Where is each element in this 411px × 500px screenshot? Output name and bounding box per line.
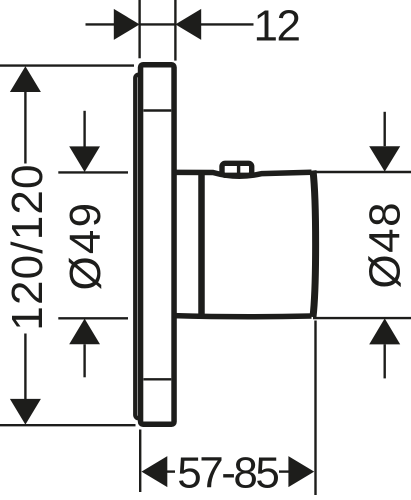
handle front edge	[313, 171, 316, 318]
svg-text:Ø49: Ø49	[61, 201, 110, 291]
stem bottom	[384, 344, 386, 378]
escutcheon plate (side view)	[141, 65, 175, 425]
svg-text:57-85: 57-85	[177, 448, 278, 497]
wall flange strip	[135, 75, 146, 419]
dimension 120/120 (plate height)	[0, 66, 136, 426]
handle bottom edge	[174, 316, 312, 317]
dimension 57-85 (wall to handle front)	[140, 321, 315, 496]
stem upper	[24, 91, 26, 164]
right tail	[279, 470, 290, 472]
arrow up (D49 bottom)	[69, 319, 100, 345]
handle top edge	[174, 172, 312, 176]
handle body fill	[177, 171, 314, 317]
extension line right	[174, 0, 176, 61]
arrow up (120/120 top)	[10, 66, 41, 92]
arrow down (120/120 bottom)	[10, 399, 41, 425]
plate inner line top	[144, 109, 172, 111]
left tail	[86, 23, 115, 25]
left tail	[167, 470, 176, 472]
extension line right	[314, 321, 316, 496]
stem bottom	[83, 344, 85, 377]
right tail	[201, 23, 254, 25]
arrow down (D49 top)	[69, 146, 100, 172]
arrow left-pointing (12 right)	[175, 9, 201, 40]
arrow left-pointing (57-85 left)	[142, 456, 168, 487]
extension line top	[313, 171, 411, 173]
extension line bottom	[313, 317, 411, 319]
arrow up (D48 bottom)	[369, 318, 400, 344]
stem top	[384, 112, 386, 146]
extension line top	[58, 171, 128, 173]
dim line between	[140, 23, 176, 25]
tab divider	[237, 165, 240, 174]
svg-text:12: 12	[254, 2, 300, 51]
dimension D49 (sleeve diameter)	[58, 111, 128, 378]
arrow down (D48 top)	[369, 146, 400, 171]
stem lower	[24, 334, 26, 400]
dimension D48 (handle diameter)	[313, 112, 411, 379]
svg-text:120/120: 120/120	[3, 163, 52, 330]
svg-text:Ø48: Ø48	[361, 201, 410, 289]
extension line left	[139, 430, 141, 493]
extension line bottom	[58, 317, 128, 319]
extension line bottom	[0, 424, 136, 426]
stem top	[83, 111, 85, 147]
extension line left	[138, 0, 140, 58]
arrow right-pointing (57-85 right)	[288, 456, 314, 487]
handle back seam	[198, 173, 205, 316]
arrow right-pointing (12 left)	[114, 9, 140, 40]
safety tab on handle	[222, 163, 252, 175]
dimension 12 (plate thickness)	[86, 0, 254, 61]
extension line top	[0, 64, 134, 66]
plate inner line bottom	[144, 378, 172, 380]
